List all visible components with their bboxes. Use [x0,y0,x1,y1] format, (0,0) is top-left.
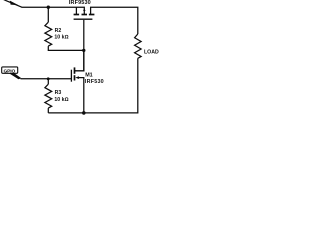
svg-text:10 kΩ: 10 kΩ [54,35,68,41]
svg-text:M1: M1 [85,73,93,79]
svg-text:R2: R2 [55,28,62,34]
svg-text:10 kΩ: 10 kΩ [54,97,68,103]
svg-text:GPIO: GPIO [4,68,16,74]
svg-text:LOAD: LOAD [144,50,159,56]
svg-text:R3: R3 [55,90,62,96]
svg-text:IRF530: IRF530 [85,79,104,85]
svg-text:IRF9530: IRF9530 [69,0,91,6]
